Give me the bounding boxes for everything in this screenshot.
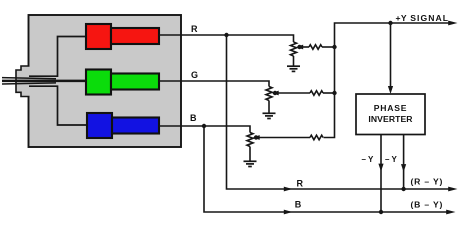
camera tube body V1 — [29, 15, 182, 147]
wire: R3 bottom to ground — [249, 147, 251, 161]
wire: R output to pot R1 — [159, 35, 294, 42]
resistor R5 (green matrix) — [310, 91, 323, 96]
node: -Y joins B line — [379, 210, 383, 214]
ground for R3 — [244, 161, 257, 166]
wire: R2 wiper to resistor R5 — [275, 92, 310, 94]
wire: R2 bottom to ground — [268, 101, 270, 113]
resistor R6 (blue matrix) — [310, 135, 323, 140]
-Y right arrow — [401, 164, 406, 172]
red gun body block — [111, 28, 159, 44]
svg-text:B: B — [190, 113, 197, 123]
svg-text:(R – Y): (R – Y) — [411, 177, 444, 187]
wire: R5 to +Y bus — [323, 92, 335, 94]
green gun body block — [111, 74, 159, 90]
(B-Y) output arrow — [446, 210, 455, 215]
optic axis line top — [2, 78, 56, 79]
wire: blue gun feed with slot bottom edge — [29, 86, 87, 125]
R3 wiper arrow — [253, 135, 260, 140]
svg-text:R: R — [297, 178, 304, 188]
B line mid arrow — [284, 210, 293, 215]
resistor R4 (red matrix) — [309, 45, 322, 50]
svg-text:PHASE: PHASE — [374, 103, 408, 113]
wire: R4 to +Y bus — [322, 46, 335, 48]
(R-Y) output arrow — [448, 187, 457, 192]
node: B tap junction — [202, 124, 206, 128]
R line mid arrow — [284, 187, 293, 192]
wire: -Y output to (B-Y) line — [380, 135, 382, 213]
op-amp U1 phase inverter box — [356, 94, 425, 135]
wire: R3 wiper to resistor R6 — [256, 137, 310, 139]
node: -Y joins R line — [401, 187, 405, 191]
wire: -Y output to (R-Y) line — [403, 135, 405, 190]
potentiometer R1 (red gain) — [291, 42, 297, 56]
red gun cathode block — [86, 24, 111, 49]
blue gun body block — [112, 118, 159, 134]
R1 wiper arrow — [296, 45, 303, 50]
R3 wiper node — [254, 135, 258, 139]
wire: +Y into phase inverter — [390, 23, 392, 87]
svg-text:INVERTER: INVERTER — [368, 114, 413, 124]
wire: red gun feed with slot top edge — [29, 37, 86, 77]
wire: R6 to +Y bus and +Y signal line — [324, 23, 450, 138]
svg-text:R: R — [191, 24, 198, 34]
wire: R1 bottom to ground — [293, 56, 295, 66]
R2 wiper node — [273, 91, 277, 95]
svg-text:– Y: – Y — [385, 155, 398, 164]
svg-text:B: B — [295, 199, 302, 209]
potentiometer R3 (blue gain) — [247, 133, 253, 147]
+Y signal arrow — [448, 21, 457, 26]
svg-text:(B – Y): (B – Y) — [411, 200, 444, 210]
blue gun cathode block — [87, 113, 112, 138]
svg-text:+YSIGNAL: +YSIGNAL — [396, 13, 450, 23]
node: G on +Y bus — [332, 91, 336, 95]
node: +Y feed junction — [388, 21, 392, 25]
wire: R1 wiper to resistor R4 — [300, 46, 310, 48]
lens mount stepped flange — [16, 66, 30, 97]
-Y left arrow — [378, 164, 383, 172]
node: R on +Y bus — [332, 45, 336, 49]
wire: B tap down to (B-Y) line — [204, 126, 448, 212]
node: R tap junction — [224, 33, 228, 37]
ground for R1 — [287, 66, 300, 71]
wire: B output to pot R3 — [159, 126, 250, 133]
optic axis line bottom — [2, 83, 56, 84]
svg-text:G: G — [191, 70, 198, 80]
R2 wiper arrow — [272, 91, 279, 96]
optic axis line middle — [2, 80, 87, 83]
wire: G output to pot R2 — [159, 81, 269, 87]
potentiometer R2 (green gain) — [266, 87, 272, 101]
svg-text:– Y: – Y — [362, 155, 375, 164]
R1 wiper node — [297, 45, 301, 49]
ground for R2 — [263, 113, 276, 118]
arrow into phase inverter — [388, 86, 393, 94]
green gun cathode block — [86, 70, 111, 95]
wire: R tap down to (R-Y) line — [227, 35, 449, 189]
